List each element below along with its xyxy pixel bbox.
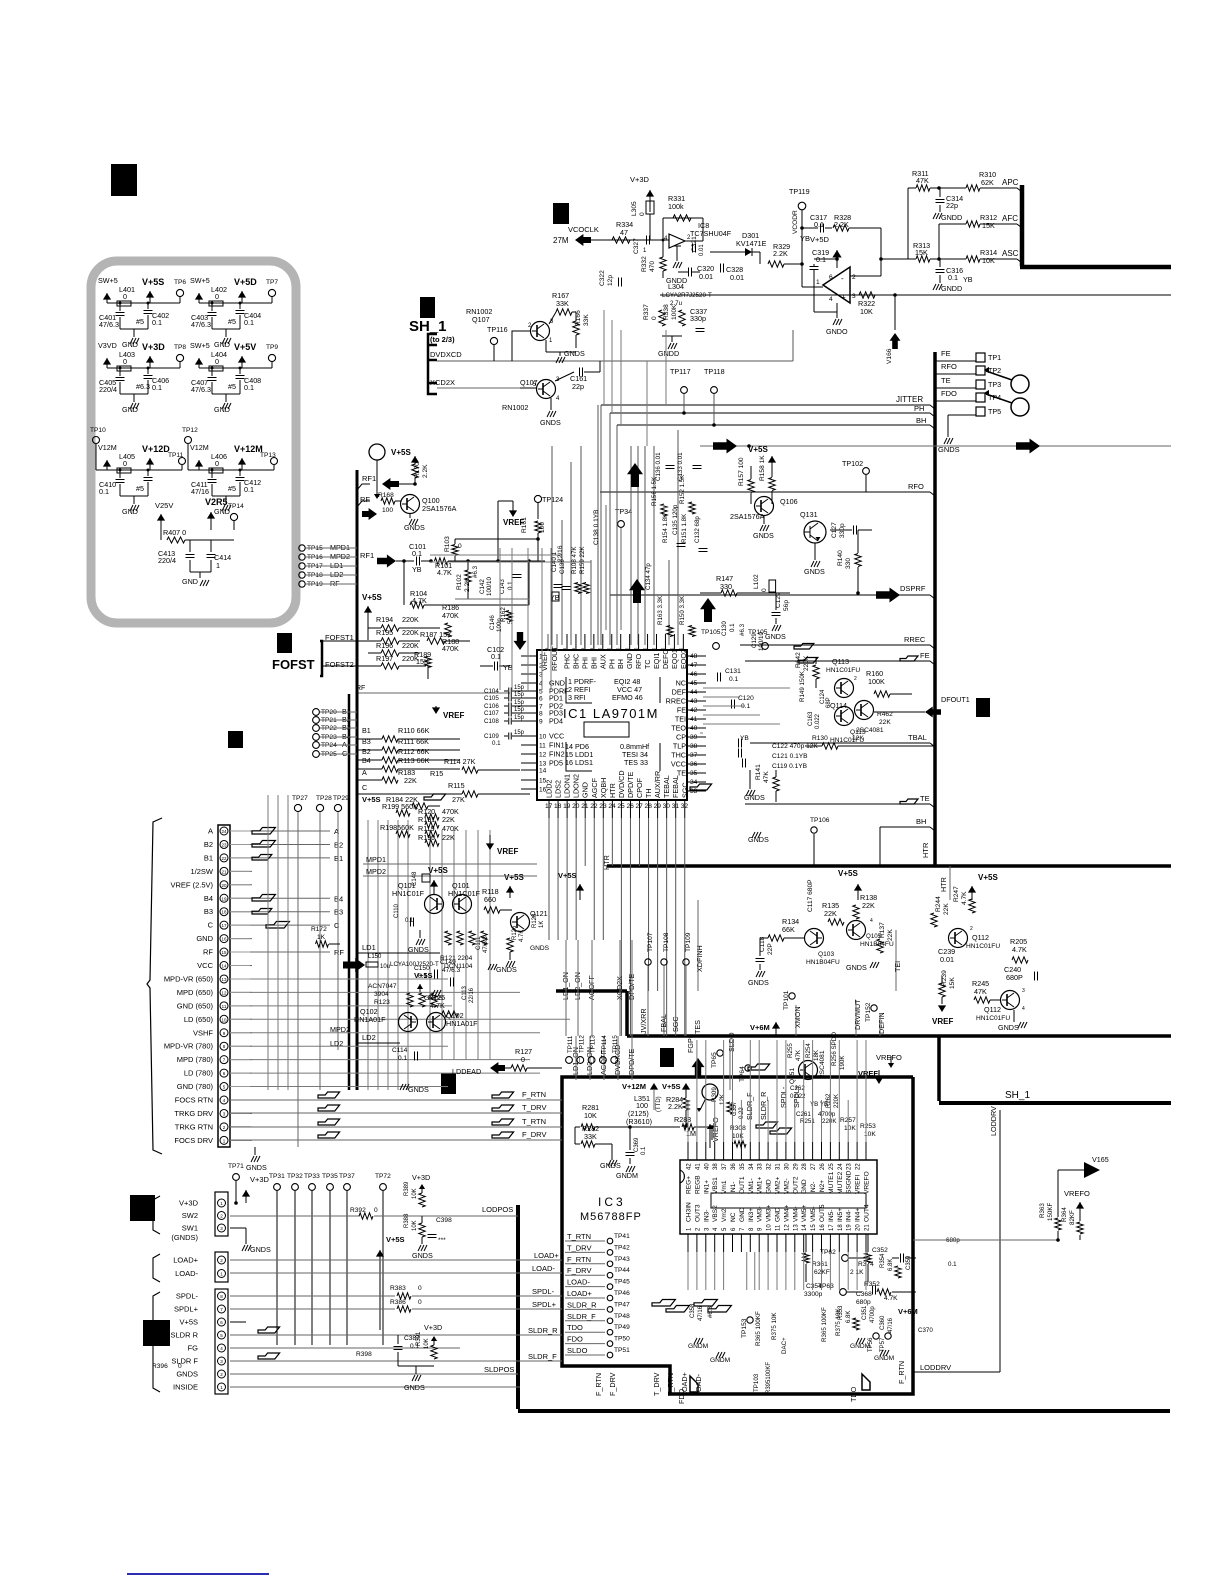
- section marker square DFOUT1: [976, 698, 990, 717]
- testpoint TP2: [976, 366, 985, 375]
- svg-text:38: 38: [690, 743, 698, 750]
- svg-text:EFMO 46: EFMO 46: [612, 693, 643, 702]
- svg-text:V+3D: V+3D: [412, 1173, 430, 1182]
- svg-text:V25V: V25V: [155, 501, 173, 510]
- svg-text:MPD2: MPD2: [330, 1025, 350, 1034]
- IC1 bottom pin 30 TEBAL: [666, 801, 668, 818]
- IC1 pin 48 right: [688, 655, 706, 657]
- IC1 bottom pin 25 DVD/CD: [620, 801, 622, 818]
- IC3 bottom pin 6 NC: [732, 1234, 734, 1252]
- svg-text:FOFST2: FOFST2: [325, 660, 354, 669]
- svg-text:22K: 22K: [862, 901, 875, 910]
- svg-text:RF: RF: [334, 948, 344, 957]
- svg-text:GNDS: GNDS: [408, 1085, 429, 1094]
- svg-text:220K: 220K: [803, 655, 810, 671]
- wire XCD2X: [437, 387, 520, 389]
- svg-text:4: 4: [829, 296, 833, 303]
- svg-text:0.1: 0.1: [405, 918, 414, 924]
- svg-text:NC: NC: [730, 1212, 737, 1222]
- svg-text:LDON1: LDON1: [563, 774, 572, 798]
- svg-text:***: ***: [438, 1237, 446, 1244]
- svg-text:34: 34: [690, 779, 698, 786]
- svg-text:BH: BH: [916, 416, 926, 425]
- svg-text:C369: C369: [634, 1137, 640, 1152]
- testpoint TP24: [313, 742, 320, 749]
- svg-text:0.1: 0.1: [99, 487, 109, 496]
- svg-text:C104: C104: [484, 688, 499, 695]
- svg-text:C327: C327: [633, 238, 640, 254]
- svg-text:VREF: VREF: [443, 711, 464, 720]
- svg-text:C322: C322: [599, 270, 606, 286]
- svg-text:IN2+: IN2+: [819, 1180, 826, 1194]
- svg-text:XMON: XMON: [793, 1006, 802, 1028]
- svg-text:DPD/TE: DPD/TE: [626, 771, 635, 798]
- svg-text:R130: R130: [812, 735, 828, 742]
- svg-text:22K: 22K: [824, 909, 837, 918]
- svg-text:SLDR_F: SLDR_F: [528, 1352, 557, 1361]
- svg-text:Q112: Q112: [972, 933, 989, 942]
- svg-text:34: 34: [749, 1163, 755, 1170]
- svg-text:VCODR: VCODR: [792, 210, 799, 234]
- svg-text:#6.3: #6.3: [708, 1306, 714, 1318]
- big arrow RF right: [362, 508, 377, 520]
- svg-text:CP: CP: [676, 733, 686, 742]
- transistor Q100: [401, 495, 420, 514]
- svg-text:TP152: TP152: [865, 1002, 872, 1022]
- svg-text:IN3-: IN3-: [703, 1210, 710, 1222]
- svg-text:XCD2X: XCD2X: [430, 378, 455, 387]
- IC3 top pin VREFI: [856, 1142, 858, 1160]
- svg-text:0: 0: [418, 1299, 422, 1306]
- svg-text:15K: 15K: [982, 221, 995, 230]
- svg-text:SLDR_F: SLDR_F: [567, 1312, 596, 1321]
- svg-text:C142: C142: [479, 579, 486, 594]
- svg-text:18: 18: [221, 910, 227, 915]
- svg-text:R407 0: R407 0: [163, 528, 186, 537]
- IC3 top pin Vm1: [723, 1142, 725, 1160]
- svg-text:RREC: RREC: [904, 635, 926, 644]
- svg-text:C: C: [208, 921, 214, 930]
- wire IC1 pin 29 descend: [657, 818, 659, 991]
- svg-text:4700p: 4700p: [870, 1306, 876, 1323]
- svg-text:SGC: SGC: [680, 782, 689, 798]
- IC1 pin 3 left: [521, 673, 537, 675]
- svg-text:SPDL-: SPDL-: [176, 1292, 199, 1301]
- svg-text:12p: 12p: [607, 275, 614, 286]
- svg-text:47/16: 47/16: [191, 487, 209, 496]
- svg-text:LDD2: LDD2: [545, 780, 554, 798]
- svg-text:TP12: TP12: [182, 427, 198, 434]
- svg-text:25: 25: [617, 803, 625, 810]
- svg-text:V+5V: V+5V: [234, 342, 256, 352]
- svg-text:(TTD): (TTD): [656, 1096, 662, 1112]
- wire IC3 pin risers: [687, 1100, 689, 1142]
- svg-text:C107: C107: [484, 710, 499, 717]
- node 27M output arrow: [575, 234, 591, 246]
- svg-text:R398: R398: [356, 1351, 372, 1358]
- svg-text:TP57: TP57: [880, 1337, 886, 1352]
- wire GNDS row: [230, 1373, 518, 1375]
- svg-text:VM3+: VM3+: [766, 1204, 773, 1222]
- svg-text:C111: C111: [476, 936, 482, 950]
- svg-text:HN1C01F: HN1C01F: [392, 889, 425, 898]
- wire long op-amp output: [660, 294, 1171, 296]
- svg-text:C108: C108: [484, 718, 499, 725]
- svg-text:R256 SPDO: R256 SPDO: [831, 1032, 838, 1066]
- svg-text:LD (650): LD (650): [184, 1015, 214, 1024]
- svg-text:C134 47p: C134 47p: [645, 563, 652, 590]
- bus thick lower step horizontal: [556, 989, 627, 993]
- svg-text:4700p: 4700p: [818, 1111, 836, 1118]
- svg-text:3: 3: [1022, 988, 1025, 994]
- svg-text:IN3+: IN3+: [748, 1208, 755, 1222]
- svg-text:R389: R389: [404, 1181, 410, 1196]
- svg-text:100/10: 100/10: [486, 577, 493, 596]
- svg-text:TP50: TP50: [614, 1336, 630, 1343]
- svg-text:4: 4: [870, 918, 873, 924]
- svg-text:TP37: TP37: [339, 1173, 355, 1180]
- svg-text:BH: BH: [616, 659, 625, 669]
- svg-text:PH: PH: [914, 404, 924, 413]
- svg-text:IN4+: IN4+: [855, 1208, 862, 1222]
- wire connector row 27: [230, 870, 252, 872]
- IC3 bottom pin 12 VM4+: [785, 1234, 787, 1252]
- IC1 top pin EQO1: [673, 634, 675, 651]
- wire connector row 34: [230, 965, 252, 967]
- wire connector row 39: [230, 1032, 252, 1034]
- svg-text:R121 2204: R121 2204: [440, 955, 473, 962]
- wire IC1 pin 17 descend: [548, 818, 550, 940]
- svg-text:2SA1576A: 2SA1576A: [422, 504, 457, 513]
- svg-text:220K: 220K: [402, 641, 419, 650]
- testpoint TP1: [976, 353, 985, 362]
- svg-text:OUT2: OUT2: [792, 1176, 799, 1194]
- svg-text:33K: 33K: [583, 314, 590, 326]
- svg-text:TP106: TP106: [810, 817, 830, 824]
- svg-text:48: 48: [690, 653, 698, 660]
- connector SLED body: [215, 1289, 228, 1394]
- svg-text:FGPL: FGPL: [686, 1034, 695, 1053]
- svg-text:L401: L401: [119, 285, 135, 294]
- testpoint TP17: [299, 563, 305, 569]
- transistor Q105: [847, 921, 866, 940]
- bus thick APC corner top-right: [1020, 185, 1025, 266]
- IC1 pin 43 RREC: [688, 700, 706, 702]
- svg-text:10: 10: [221, 1017, 227, 1022]
- svg-text:SPDL-: SPDL-: [532, 1287, 555, 1296]
- svg-text:XQBH: XQBH: [599, 778, 608, 798]
- IC1 pin 16 left: [521, 788, 537, 790]
- svg-text:26: 26: [626, 803, 634, 810]
- wire V2R5 testpoint: [211, 539, 234, 541]
- wire IC1 pin 27 descend: [639, 818, 641, 866]
- svg-text:R162: R162: [500, 607, 507, 622]
- svg-text:TP28: TP28: [316, 795, 332, 802]
- svg-text:F_RTN: F_RTN: [522, 1090, 546, 1099]
- svg-text:OUT1: OUT1: [739, 1176, 746, 1194]
- svg-text:VREFO: VREFO: [711, 1117, 720, 1142]
- bus thick mid-left vertical: [356, 470, 359, 1090]
- svg-text:4.7K: 4.7K: [437, 568, 452, 577]
- big up arrow 4: [700, 598, 716, 622]
- connector SW body: [215, 1192, 228, 1236]
- svg-text:LOAD-: LOAD-: [175, 1269, 198, 1278]
- svg-text:31: 31: [776, 1163, 782, 1170]
- svg-text:14: 14: [221, 964, 227, 969]
- svg-text:V+5S: V+5S: [978, 873, 998, 882]
- wire IC1 pin 19 descend: [566, 818, 568, 940]
- svg-text:100: 100: [382, 507, 393, 514]
- svg-text:10: 10: [539, 734, 547, 741]
- svg-text:HN1A01F: HN1A01F: [354, 1015, 386, 1024]
- IC3 bottom pin 17 IN5-: [829, 1234, 831, 1252]
- svg-text:R247: R247: [953, 886, 960, 902]
- svg-text:LD (780): LD (780): [184, 1069, 214, 1078]
- svg-text:SLDR_R: SLDR_R: [567, 1300, 597, 1309]
- svg-text:26: 26: [820, 1163, 826, 1170]
- wire connector row 43: [230, 1086, 252, 1088]
- svg-text:FE: FE: [941, 349, 951, 358]
- svg-text:18: 18: [554, 803, 562, 810]
- svg-text:47/6.3: 47/6.3: [191, 385, 211, 394]
- IC3 top pin GND: [803, 1142, 805, 1160]
- svg-text:40: 40: [690, 725, 698, 732]
- flag DEF mid: [794, 644, 814, 650]
- svg-text:XDFINH: XDFINH: [695, 945, 704, 972]
- IC3 top pin IN1+: [705, 1142, 707, 1160]
- svg-text:47K: 47K: [974, 987, 987, 996]
- svg-text:#5: #5: [228, 382, 236, 391]
- svg-text:GNDS: GNDS: [600, 1161, 621, 1170]
- svg-text:VM5-: VM5-: [810, 1206, 817, 1222]
- svg-text:VM5+: VM5+: [801, 1204, 808, 1222]
- svg-text:R142: R142: [795, 652, 802, 668]
- svg-text:GNDS: GNDS: [998, 1023, 1019, 1032]
- wire connector row 26: [230, 857, 252, 859]
- svg-text:R15: R15: [430, 769, 443, 778]
- IC3 top pin VBS1: [714, 1142, 716, 1160]
- IC3 bottom pin 4 VBS2: [714, 1234, 716, 1252]
- bus thick bottom long: [518, 1409, 1170, 1413]
- IC1 pin 7 PD2: [521, 705, 537, 707]
- testpoint circle RF1 top: [369, 444, 385, 460]
- IC3 bottom pin 5 Vm2: [723, 1234, 725, 1252]
- svg-text:GND: GND: [214, 405, 230, 414]
- svg-text:JITTER: JITTER: [896, 395, 923, 404]
- svg-text:20: 20: [856, 1224, 862, 1231]
- svg-text:TP102: TP102: [842, 459, 863, 468]
- IC3 top pin VM1+: [758, 1142, 760, 1160]
- svg-text:150KF: 150KF: [1047, 1203, 1054, 1221]
- svg-text:LD2: LD2: [362, 1033, 376, 1042]
- svg-text:C122 470p 12K: C122 470p 12K: [772, 743, 818, 750]
- svg-text:TES: TES: [693, 1020, 702, 1034]
- svg-text:18: 18: [838, 1224, 844, 1231]
- svg-text:100K: 100K: [671, 304, 678, 320]
- svg-text:-: -: [841, 274, 844, 283]
- svg-text:R113 66K: R113 66K: [398, 756, 430, 765]
- svg-text:RN1002: RN1002: [502, 403, 528, 412]
- svg-text:C136 0.01: C136 0.01: [655, 452, 662, 481]
- svg-text:GNDM: GNDM: [874, 1355, 894, 1362]
- svg-text:220/4: 220/4: [99, 385, 117, 394]
- svg-text:R156 1.5K: R156 1.5K: [651, 476, 658, 506]
- svg-text:GND: GND: [625, 653, 634, 669]
- svg-text:VREF: VREF: [858, 1069, 878, 1078]
- svg-text:R383: R383: [390, 1285, 406, 1292]
- svg-text:YB: YB: [800, 234, 810, 243]
- svg-text:MUTE2: MUTE2: [837, 1171, 844, 1194]
- svg-text:OUT4: OUT4: [864, 1204, 871, 1222]
- svg-text:C114: C114: [392, 1047, 408, 1054]
- svg-text:R110 66K: R110 66K: [398, 726, 430, 735]
- svg-text:0: 0: [374, 1207, 378, 1214]
- svg-text:C163: C163: [808, 711, 814, 726]
- section marker square top-left: [111, 164, 137, 196]
- svg-text:0.1: 0.1: [244, 383, 254, 392]
- svg-text:TP41: TP41: [614, 1233, 630, 1240]
- svg-text:V+5S: V+5S: [386, 1235, 405, 1244]
- svg-text:SLDO: SLDO: [567, 1346, 588, 1355]
- svg-text:GNDS: GNDS: [404, 523, 425, 532]
- svg-text:V3VD: V3VD: [98, 341, 117, 350]
- svg-text:0.1: 0.1: [507, 581, 514, 590]
- svg-text:GNDS: GNDS: [404, 1383, 425, 1392]
- svg-text:THC: THC: [671, 751, 686, 760]
- svg-text:C368: C368: [856, 1291, 872, 1298]
- svg-text:0.1: 0.1: [244, 318, 254, 327]
- IC3 top pin REG+: [687, 1142, 689, 1160]
- testpoint TP15: [299, 545, 305, 551]
- IC1 top pin PH: [611, 634, 613, 651]
- svg-text:Vm2: Vm2: [721, 1208, 728, 1222]
- svg-text:R140: R140: [837, 550, 844, 566]
- wire mesh vertical bundle above IC1: [597, 405, 599, 645]
- wire RF big arrow: [343, 958, 365, 972]
- bus bracket FOFST: [320, 641, 322, 676]
- ground GNDS q101: [419, 930, 421, 938]
- svg-text:21: 21: [221, 869, 227, 874]
- svg-text:20: 20: [572, 803, 580, 810]
- svg-text:YB: YB: [740, 735, 749, 742]
- bus bracket SH_1: [428, 334, 437, 394]
- svg-text:TP34: TP34: [615, 507, 632, 516]
- svg-text:C135 120p: C135 120p: [672, 504, 679, 535]
- IC1 pin 35 TE: [688, 772, 706, 774]
- svg-text:IN5-: IN5-: [828, 1210, 835, 1222]
- svg-text:VREF: VREF: [932, 1017, 953, 1026]
- svg-text:R253: R253: [860, 1123, 876, 1130]
- IC1 top pin PHC: [566, 634, 568, 651]
- IC3 top pin GND: [767, 1142, 769, 1160]
- svg-text:F_DRV: F_DRV: [567, 1266, 591, 1275]
- IC1 top pin DEFC: [664, 634, 666, 651]
- svg-text:REGB: REGB: [694, 1175, 701, 1194]
- svg-text:C109: C109: [484, 733, 499, 740]
- section marker square bottom-left 2: [143, 1320, 170, 1346]
- svg-text:FDO: FDO: [567, 1335, 583, 1344]
- svg-text:B3: B3: [204, 907, 213, 916]
- svg-text:FG: FG: [188, 1344, 199, 1353]
- svg-text:0.1: 0.1: [641, 1146, 647, 1155]
- svg-text:V+5S: V+5S: [179, 1318, 198, 1327]
- svg-text:HTR: HTR: [921, 842, 930, 858]
- svg-text:17: 17: [829, 1224, 835, 1231]
- svg-text:R392: R392: [350, 1207, 366, 1214]
- svg-text:GND: GND: [739, 1207, 746, 1222]
- wire vertical bundle 2: [429, 830, 431, 1060]
- svg-text:TP108: TP108: [663, 932, 670, 952]
- wire IC1 pin 31 descend: [675, 818, 677, 1036]
- IC3 bottom pin 1 CH3IN: [687, 1234, 689, 1252]
- wire connector row 30: [230, 911, 252, 913]
- svg-text:R361: R361: [812, 1261, 828, 1268]
- svg-text:0: 0: [123, 357, 127, 366]
- svg-text:GNDM: GNDM: [688, 1343, 708, 1350]
- svg-text:220K: 220K: [402, 628, 419, 637]
- IC1 bottom pin 29 AUX/RR: [657, 801, 659, 818]
- svg-text:GNDS: GNDS: [250, 1245, 271, 1254]
- IC1 top pin BHI: [593, 634, 595, 651]
- svg-text:23: 23: [221, 842, 227, 847]
- svg-text:AFC: AFC: [1002, 214, 1018, 223]
- svg-text:C106: C106: [484, 703, 499, 710]
- svg-text:0: 0: [215, 459, 219, 468]
- IC1 bottom pin 20 LDON2: [575, 801, 577, 818]
- svg-text:ASC: ASC: [1002, 249, 1019, 258]
- wire T_DRV long: [230, 1112, 562, 1114]
- svg-text:TE: TE: [941, 376, 951, 385]
- svg-text:35: 35: [690, 770, 698, 777]
- svg-text:TP42: TP42: [614, 1244, 630, 1251]
- svg-text:C146: C146: [489, 615, 496, 630]
- svg-text:C110: C110: [394, 903, 400, 918]
- svg-text:GND: GND: [581, 782, 590, 798]
- svg-text:TP6: TP6: [174, 279, 186, 286]
- wire Q107 base: [512, 331, 531, 361]
- capacitor C314: [939, 188, 941, 197]
- svg-text:V12M: V12M: [190, 443, 209, 452]
- IC1 bottom pin 26 DPD/TE: [629, 801, 631, 818]
- big up arrow 1: [627, 463, 643, 487]
- svg-text:15p: 15p: [514, 730, 525, 736]
- svg-text:TP10: TP10: [90, 427, 106, 434]
- svg-text:19: 19: [221, 896, 227, 901]
- svg-text:F_DRV: F_DRV: [522, 1130, 546, 1139]
- svg-text:GNDS: GNDS: [765, 632, 786, 641]
- svg-text:V+3D: V+3D: [424, 1323, 442, 1332]
- svg-text:VCC: VCC: [549, 732, 564, 741]
- wire FG row: [230, 1347, 460, 1349]
- svg-text:R194: R194: [376, 615, 393, 624]
- transistor Q106: [755, 497, 774, 516]
- svg-text:29: 29: [654, 803, 662, 810]
- svg-text:FDO: FDO: [941, 389, 957, 398]
- testpoint TP19: [299, 581, 305, 587]
- svg-text:(GNDS): (GNDS): [171, 1233, 198, 1242]
- svg-text:VREF: VREF: [503, 518, 524, 527]
- svg-text:42: 42: [690, 707, 698, 714]
- svg-text:V+3D: V+3D: [179, 1199, 199, 1208]
- svg-text:10K: 10K: [424, 1338, 430, 1349]
- IC1 pin 8 PD3: [521, 712, 537, 714]
- svg-text:SW+5: SW+5: [190, 276, 210, 285]
- svg-text:21: 21: [581, 803, 589, 810]
- svg-text:GNDS: GNDS: [804, 567, 825, 576]
- big down arrow C102: [514, 632, 527, 650]
- ground GNDS r388: [421, 1237, 423, 1244]
- svg-text:2: 2: [852, 274, 856, 281]
